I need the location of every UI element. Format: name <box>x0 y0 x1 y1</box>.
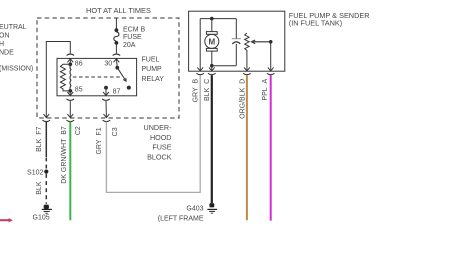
capacitor C <box>232 38 241 40</box>
wire left drop to pin B <box>199 19 201 71</box>
pin 86 junction dot <box>68 62 72 66</box>
relay actuator dashed link <box>73 76 121 78</box>
relay switch contact dot <box>127 86 131 90</box>
svg-text:BLK: BLK <box>36 181 43 195</box>
fuel pump motor M <box>205 19 219 66</box>
svg-text:NDE: NDE <box>0 50 14 57</box>
wire relay pin 85 down to B7 exit <box>69 101 71 117</box>
connector cup above relay pin 30 <box>113 54 121 55</box>
splice S102 <box>44 170 48 174</box>
wire fuse to relay pin 30 <box>115 45 117 54</box>
svg-text:PPL A: PPL A <box>262 78 269 100</box>
svg-text:PUMP: PUMP <box>142 66 163 73</box>
terminal arrow pin C <box>209 67 215 71</box>
junction dot motor top <box>210 17 214 21</box>
svg-text:20A: 20A <box>123 42 136 49</box>
relay pin 86 terminal arrow <box>67 59 73 65</box>
svg-text:87: 87 <box>113 88 121 95</box>
connector cup above relay pin 86 <box>67 54 75 55</box>
relay switch blade <box>117 68 126 82</box>
terminal arrow at F1 exit <box>104 114 110 118</box>
ground G105 <box>42 205 52 214</box>
partial left component label (transmission) <box>0 24 33 73</box>
connector cup below F1 exit <box>103 120 111 121</box>
wire PPL <box>270 75 272 220</box>
pin 85 junction dot <box>68 89 72 93</box>
relay coil winding line <box>69 64 72 91</box>
svg-text:FUSE: FUSE <box>152 143 171 152</box>
label FUEL PUMP & SENDER (IN FUEL TANK) <box>289 11 370 28</box>
PNK stub arrowhead <box>9 218 13 222</box>
svg-text:S102: S102 <box>27 169 43 176</box>
terminal arrow pin B <box>197 67 203 71</box>
svg-text:86: 86 <box>75 60 83 67</box>
wire ORG/BLK <box>246 75 248 220</box>
connector cup below pin B <box>196 73 204 74</box>
wire DK GRN/WHT <box>69 122 71 221</box>
wire PNK stub at bottom left <box>0 219 9 221</box>
svg-text:FUSE: FUSE <box>123 34 142 41</box>
fuel level sender resistor <box>245 33 249 71</box>
pin 87 junction dot <box>104 86 108 90</box>
wire BLK from F7 to S102 <box>45 122 47 157</box>
svg-text:30: 30 <box>104 60 112 67</box>
relay coil zigzag <box>60 64 70 91</box>
svg-text:BLK C: BLK C <box>204 79 211 101</box>
svg-text:M: M <box>208 37 215 46</box>
relay pin 87 terminal arrow <box>103 88 109 96</box>
capacitor lower wire <box>235 44 237 66</box>
svg-text:(IN FUEL TANK): (IN FUEL TANK) <box>289 19 342 28</box>
svg-text:DK GRN/WHT B7: DK GRN/WHT B7 <box>61 126 68 184</box>
svg-text:85: 85 <box>75 86 83 93</box>
svg-text:ON: ON <box>0 32 10 39</box>
wire GRY from C3 to fuel pump B <box>106 75 200 192</box>
wire relay pin 87 down to F1 exit <box>105 101 107 117</box>
junction dot motor bottom <box>210 64 214 68</box>
connector cup below pin D <box>243 73 251 74</box>
terminal arrow pin A <box>268 67 274 71</box>
wire wiper to pin A <box>270 42 272 71</box>
label FUEL PUMP RELAY <box>142 56 165 82</box>
svg-text:FUEL: FUEL <box>142 56 160 63</box>
terminal arrow at F7 exit <box>43 114 49 118</box>
label UNDERHOOD FUSE BLOCK <box>144 123 173 161</box>
label ECM B FUSE 20A <box>123 26 146 49</box>
svg-text:G105: G105 <box>33 215 50 222</box>
svg-text:C2: C2 <box>75 126 82 135</box>
svg-text:EUTRAL: EUTRAL <box>0 24 27 31</box>
fuel pump and sender box <box>189 11 285 71</box>
wire BLK dashed to G105 <box>45 174 47 204</box>
relay pin 85 terminal arrow <box>67 91 73 96</box>
connector cup below relay pin 87 <box>102 99 110 100</box>
terminal arrow pin D <box>244 67 250 71</box>
wire relay pin 86 up and over to F7 exit <box>46 42 70 118</box>
underhood fuse block dashed outline <box>37 18 179 118</box>
wire motor loop top <box>200 18 236 20</box>
ground G403 <box>207 203 217 214</box>
svg-text:ORG/BLK D: ORG/BLK D <box>239 79 246 119</box>
fuel pump relay box <box>57 58 137 95</box>
wire BLK dashed to S102 <box>45 158 47 171</box>
sender wiper arm <box>252 40 271 44</box>
svg-text:UNDER-: UNDER- <box>144 123 173 132</box>
svg-text:BLOCK: BLOCK <box>147 152 172 161</box>
svg-text:HOOD: HOOD <box>150 133 172 142</box>
wire motor bottom to pin C <box>211 66 213 71</box>
svg-text:C3: C3 <box>112 127 119 136</box>
svg-text:G403: G403 <box>186 206 203 213</box>
svg-text:(MISSION): (MISSION) <box>0 65 33 72</box>
svg-text:GRY F1: GRY F1 <box>96 127 103 154</box>
connector cup below pin C <box>208 73 216 74</box>
wire BLK C to G403 <box>211 75 213 203</box>
svg-text:(LEFT FRAME: (LEFT FRAME <box>158 216 204 223</box>
svg-text:GRY B: GRY B <box>192 78 199 102</box>
wiper junction dot <box>269 40 273 44</box>
connector cup below B7 exit <box>67 120 75 121</box>
connector cup below pin A <box>267 73 275 74</box>
relay pin 30 terminal arrow <box>114 59 120 68</box>
capacitor branch wire <box>235 19 237 39</box>
svg-text:HOT AT ALL TIMES: HOT AT ALL TIMES <box>86 6 151 15</box>
terminal arrow at B7 exit <box>67 114 73 118</box>
svg-text:ECM B: ECM B <box>123 26 146 33</box>
svg-text:H: H <box>0 41 4 48</box>
connector cup below F7 exit <box>43 120 51 121</box>
svg-text:RELAY: RELAY <box>142 76 165 83</box>
fuse ECM B 20A <box>114 28 119 44</box>
svg-text:BLK F7: BLK F7 <box>36 127 43 152</box>
wire motor loop bottom <box>212 65 237 67</box>
wire B+ feed into fuse <box>115 18 117 29</box>
relay switch common dot (pin 30) <box>115 66 119 70</box>
connector cup below relay pin 85 <box>67 99 75 100</box>
